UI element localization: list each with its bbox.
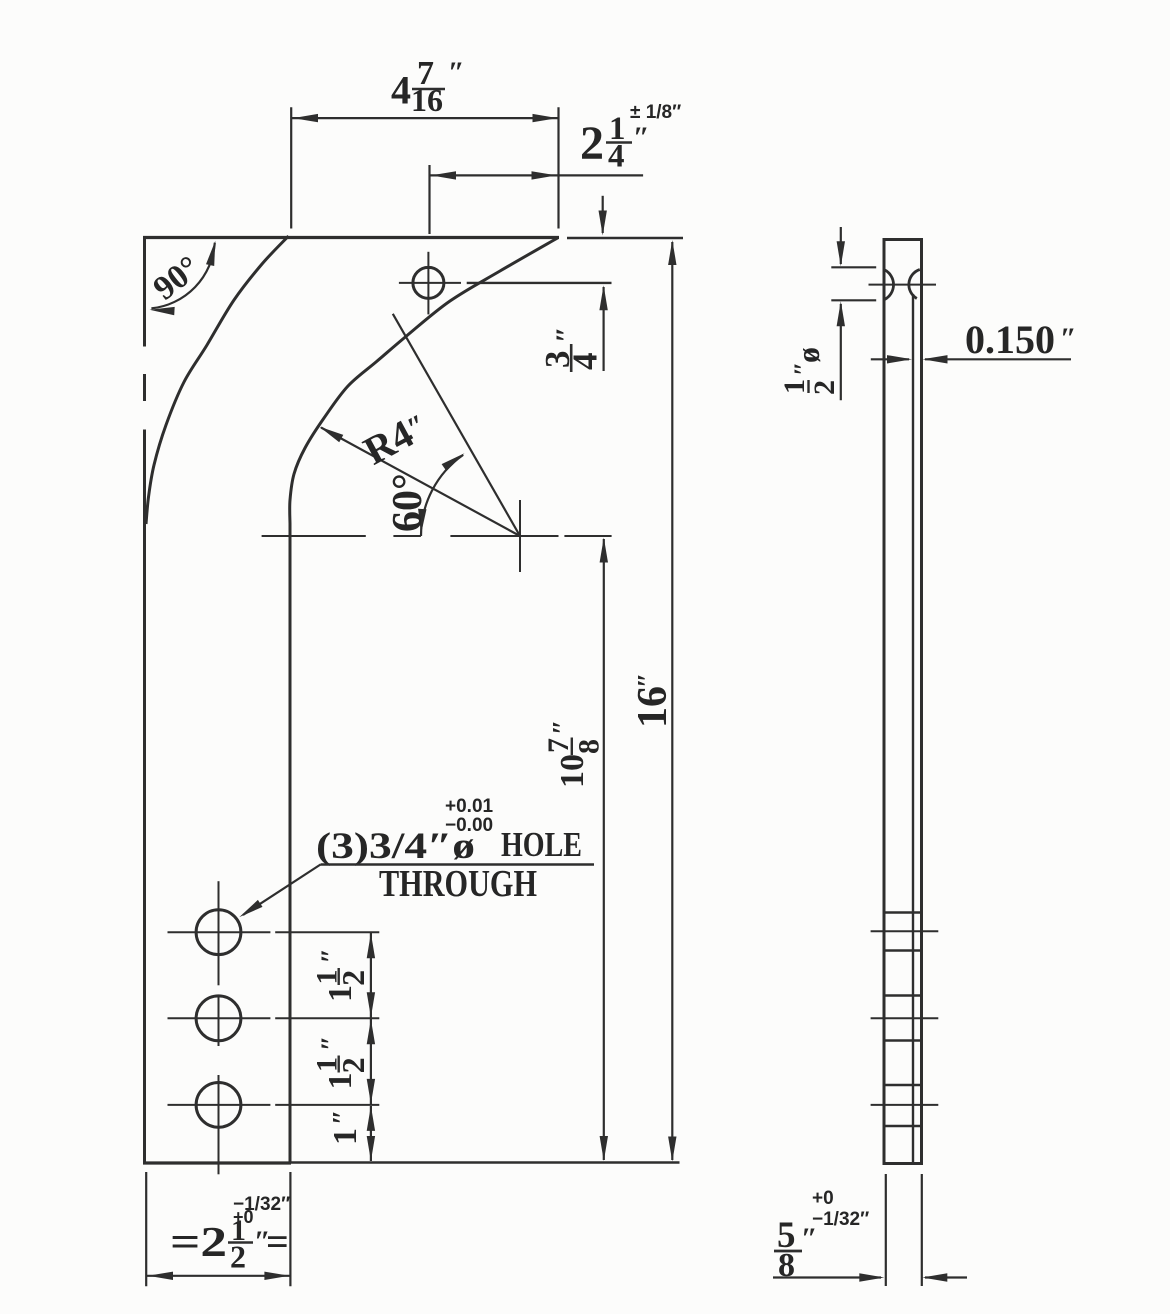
dim text 1 inch rotated bbox=[327, 1110, 364, 1145]
dim 0.150: left arrow line pointing right bbox=[871, 355, 912, 363]
side view 1/2in hole right arc bbox=[909, 270, 920, 299]
dim 5/8: right extension line below bbox=[921, 1174, 923, 1286]
svg-text:−1/32″: −1/32″ bbox=[812, 1209, 869, 1230]
1/2in dia hole front view bbox=[413, 267, 444, 298]
dim 1/2 dia upper extent line bbox=[831, 266, 876, 268]
svg-text:8: 8 bbox=[573, 739, 606, 754]
svg-text:0.150: 0.150 bbox=[965, 317, 1055, 362]
dim 5/8: left arrow line pointing right bbox=[773, 1273, 884, 1281]
svg-text:ø: ø bbox=[790, 347, 826, 363]
dim 5/8: left extension line below bbox=[885, 1174, 887, 1286]
callout leader with arrow to hole 1 bbox=[239, 865, 320, 918]
svg-text:4: 4 bbox=[391, 68, 411, 113]
dim 4 7/16: dimension line with arrows bbox=[292, 114, 558, 122]
text 90 deg rotated bbox=[147, 249, 207, 307]
part front view: left edge lower segment bbox=[143, 430, 146, 1164]
hole 3 centerlines bbox=[168, 1075, 380, 1174]
svg-text:1: 1 bbox=[322, 1073, 359, 1090]
R4 radius leader with arrow bbox=[319, 427, 520, 536]
dim text 5/8 inch with tolerance bbox=[774, 1188, 869, 1284]
svg-text:″: ″ bbox=[633, 673, 664, 688]
dim 1 1/2 upper: dimension line with arrows bbox=[367, 933, 375, 1018]
svg-text:± 1/8″: ± 1/8″ bbox=[630, 102, 681, 123]
dim 1/2 dia lower arrow pointing up bbox=[837, 301, 845, 400]
svg-text:″: ″ bbox=[550, 326, 583, 343]
dim 2 1/2: left extension line bbox=[145, 1172, 147, 1286]
callout text THROUGH bbox=[379, 863, 537, 905]
svg-text:″: ″ bbox=[328, 1110, 359, 1125]
dim text 4 7/16 inch bbox=[391, 55, 465, 118]
dim 4 7/16: left extension line bbox=[290, 107, 292, 228]
side view 1/2in hole left arc bbox=[884, 270, 894, 300]
60 deg ray from R4 center bbox=[393, 314, 520, 536]
hole 1 centerlines bbox=[168, 881, 380, 985]
callout underline bbox=[321, 863, 595, 866]
dim 2 1/2: dimension line with arrows bbox=[147, 1272, 290, 1280]
svg-text:90°: 90° bbox=[147, 249, 207, 307]
svg-text:16: 16 bbox=[630, 686, 676, 728]
tolerance text plus-minus 1/8 bbox=[630, 102, 681, 123]
side view hole 1 centerline bbox=[871, 930, 939, 932]
side view hole 2 edge lines bbox=[884, 996, 922, 1041]
dim text 10 7/8 inch rotated bbox=[542, 720, 606, 788]
dim text 0.150 inch bbox=[965, 317, 1077, 362]
dim 0.150: right arrow line pointing left bbox=[923, 355, 1072, 363]
dim text 1/2 dia rotated bbox=[778, 347, 841, 395]
svg-text:4: 4 bbox=[608, 139, 625, 175]
svg-text:8: 8 bbox=[778, 1247, 795, 1284]
part front view: left edge upper solid segment bbox=[143, 236, 146, 347]
dim text 1 1/2 inch upper rotated bbox=[311, 948, 372, 1002]
dim 5/8: right arrow line pointing left bbox=[922, 1273, 967, 1281]
dim 2 1/4: extension line from hole centerline bbox=[428, 165, 430, 234]
svg-text:″: ″ bbox=[448, 56, 465, 89]
svg-text:+0: +0 bbox=[233, 1207, 254, 1227]
dim 1 1/2 lower: dimension line with arrows bbox=[367, 1019, 375, 1104]
dim 2 1/4: dimension line with arrows bbox=[430, 171, 643, 179]
side view outline bbox=[884, 240, 922, 1164]
dim text 2 1/2 inch with tolerance bbox=[170, 1194, 290, 1275]
side view hole 3 edge lines bbox=[884, 1085, 922, 1126]
hole horizontal centerline bbox=[399, 282, 461, 284]
dim text 2 1/4 inch bbox=[580, 111, 650, 175]
dim text 1 1/2 inch lower rotated bbox=[311, 1036, 372, 1090]
text R4 inch rotated bbox=[356, 403, 435, 474]
svg-text:+0: +0 bbox=[812, 1188, 834, 1209]
svg-text:2: 2 bbox=[808, 380, 841, 395]
hole vertical centerline bbox=[427, 252, 429, 315]
dim 2 1/2: right extension line bbox=[289, 1172, 291, 1286]
svg-text:10: 10 bbox=[554, 754, 591, 788]
side view inner line 0.150 step bbox=[912, 294, 914, 1163]
svg-text:″: ″ bbox=[317, 1036, 348, 1051]
dim 1/2 dia upper arrow pointing down bbox=[837, 227, 845, 266]
svg-text:2: 2 bbox=[335, 1057, 371, 1073]
bottom edge extension line for dims bbox=[291, 1161, 680, 1163]
side view hole 3 centerline bbox=[871, 1104, 939, 1106]
svg-text:2: 2 bbox=[230, 1239, 246, 1275]
svg-text:4: 4 bbox=[566, 353, 605, 371]
svg-text:HOLE: HOLE bbox=[501, 825, 582, 864]
hole 2 centerlines bbox=[168, 996, 380, 1046]
dim 3/4: lower dimension line with up arrow bbox=[599, 285, 607, 371]
svg-text:THROUGH: THROUGH bbox=[379, 863, 537, 905]
svg-text:1: 1 bbox=[778, 379, 811, 394]
3/4in dia hole 3 front view bbox=[196, 1083, 241, 1128]
svg-text:1: 1 bbox=[322, 985, 359, 1002]
svg-text:2: 2 bbox=[335, 970, 371, 986]
dim 10 7/8: dimension line with arrows bbox=[600, 538, 608, 1162]
svg-text:60°: 60° bbox=[385, 473, 431, 532]
side view hole 2 centerline bbox=[871, 1017, 939, 1019]
dim 16: dimension line with arrows bbox=[668, 240, 676, 1162]
svg-text:=: = bbox=[266, 1219, 289, 1264]
dim 3/4: hole center extension line bbox=[467, 282, 612, 284]
R4 center mark horizontal chain centerline bbox=[262, 535, 612, 537]
90 deg angular arc with arrows bbox=[150, 241, 216, 316]
side view hole 1 edge lines bbox=[884, 913, 922, 951]
dim 4 7/16: right extension line bbox=[557, 107, 559, 228]
svg-text:−0.00: −0.00 bbox=[445, 815, 493, 836]
svg-text:7: 7 bbox=[542, 738, 575, 753]
part front view: bottom edge bbox=[143, 1161, 291, 1164]
svg-text:+0.01: +0.01 bbox=[445, 796, 494, 817]
part front view: left edge dash segment bbox=[143, 374, 146, 401]
svg-text:″: ″ bbox=[548, 720, 579, 735]
dim 1/2 dia lower extent line bbox=[831, 299, 876, 301]
svg-text:2: 2 bbox=[580, 117, 604, 170]
svg-text:″: ″ bbox=[317, 948, 348, 963]
dim 3/4: upper arrow pointing down at top edge bbox=[599, 196, 607, 236]
60 deg angular arc with arrows bbox=[418, 453, 464, 536]
part front view: top edge bbox=[143, 236, 559, 239]
svg-text:=2: =2 bbox=[170, 1220, 227, 1266]
3/4in dia hole 2 front view bbox=[196, 996, 241, 1041]
top edge extension line for 16in dim bbox=[567, 237, 683, 239]
svg-text:1: 1 bbox=[327, 1128, 364, 1145]
svg-text:16: 16 bbox=[411, 82, 443, 118]
part front view: inner profile curve bbox=[146, 236, 289, 524]
svg-text:″: ″ bbox=[633, 121, 650, 154]
dim text 3/4 inch rotated bbox=[538, 326, 605, 372]
callout text 3x 3/4 dia with tolerance bbox=[316, 796, 582, 867]
svg-text:R4″: R4″ bbox=[356, 403, 435, 474]
3/4in dia hole 1 front view bbox=[196, 910, 241, 955]
dim 1 inch: dimension line with arrows bbox=[367, 1106, 375, 1161]
dim text 16 inch rotated bbox=[630, 673, 676, 728]
side view 1/2in hole centerline bbox=[869, 284, 937, 286]
text 60 deg rotated bbox=[385, 473, 431, 532]
svg-text:″: ″ bbox=[1060, 322, 1077, 355]
part front view: R4 profile curve and right edge bbox=[290, 238, 558, 1164]
R4 center mark vertical centerline bbox=[519, 500, 521, 572]
